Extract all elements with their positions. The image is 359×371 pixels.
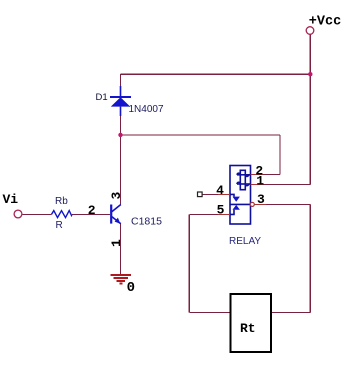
wire: resistor to transistor base: [72, 213, 110, 215]
svg-text:Rb: Rb: [55, 196, 68, 207]
svg-text:4: 4: [216, 183, 224, 198]
wire: +Vcc vertical down to relay pin1 level: [309, 35, 311, 185]
svg-text:5: 5: [217, 203, 225, 218]
wire: Vi to resistor: [22, 213, 51, 215]
relay contact triangles: [233, 197, 240, 202]
svg-text:D1: D1: [96, 92, 108, 103]
wire: diode bottom to junction to collector: [120, 107, 122, 205]
wire: relay pin4 to no-connect square: [202, 193, 230, 195]
svg-text:0: 0: [127, 280, 135, 296]
svg-text:Rt: Rt: [240, 321, 256, 336]
wire: emitter down to ground: [120, 224, 122, 275]
wire: junction horizontal to x=280: [121, 134, 281, 136]
wire: left horizontal to Rt left edge: [189, 312, 230, 314]
svg-text:C1815: C1815: [131, 216, 162, 228]
ground: [111, 275, 132, 284]
relay pin4 internal: [230, 194, 234, 196]
junction at diode anode node: [118, 133, 122, 137]
wire: relay pin3 to right vertical: [255, 203, 311, 205]
svg-text:RELAY: RELAY: [229, 236, 261, 247]
diode D1: [110, 86, 131, 116]
svg-text:1N4007: 1N4007: [129, 104, 164, 115]
Rt box: [231, 294, 272, 352]
wire: relay pin5 to left: [189, 213, 230, 215]
svg-text:R: R: [56, 220, 63, 231]
svg-text:3: 3: [257, 192, 265, 207]
svg-text:1: 1: [109, 239, 124, 247]
resistor Rb: [52, 211, 73, 218]
relay coil: [240, 170, 245, 189]
junction at +Vcc rail: [308, 72, 312, 76]
terminal Vi circle: [14, 210, 22, 218]
wire: right vertical down to Rt: [309, 204, 311, 312]
wire: bottom horizontal to Rt right edge: [271, 312, 310, 314]
relay contact line: [230, 203, 251, 205]
relay K1 body: [230, 166, 251, 225]
wire: left vertical down: [188, 214, 190, 312]
terminal +Vcc circle: [306, 27, 314, 35]
svg-text:3: 3: [109, 192, 124, 200]
svg-text:Vi: Vi: [3, 192, 19, 207]
relay pin3 circle: [250, 202, 254, 206]
no-connect square on pin4: [198, 192, 203, 197]
svg-text:1: 1: [256, 173, 264, 188]
relay pin stubs: [218, 174, 266, 214]
wire: relay pin1 horizontal to +Vcc vertical: [251, 183, 311, 185]
svg-text:2: 2: [88, 203, 96, 218]
wire: relay pin2 horizontal: [251, 173, 281, 175]
relay pin5 internal: [230, 210, 234, 215]
wire: vertical x=280 down to relay pin2: [279, 135, 281, 175]
wire: top rail from diode top to +Vcc vertical: [22, 35, 310, 313]
transistor Q1 C1815: [111, 205, 121, 224]
wire: diode top vertical: [120, 74, 122, 96]
svg-text:+Vcc: +Vcc: [309, 15, 341, 30]
